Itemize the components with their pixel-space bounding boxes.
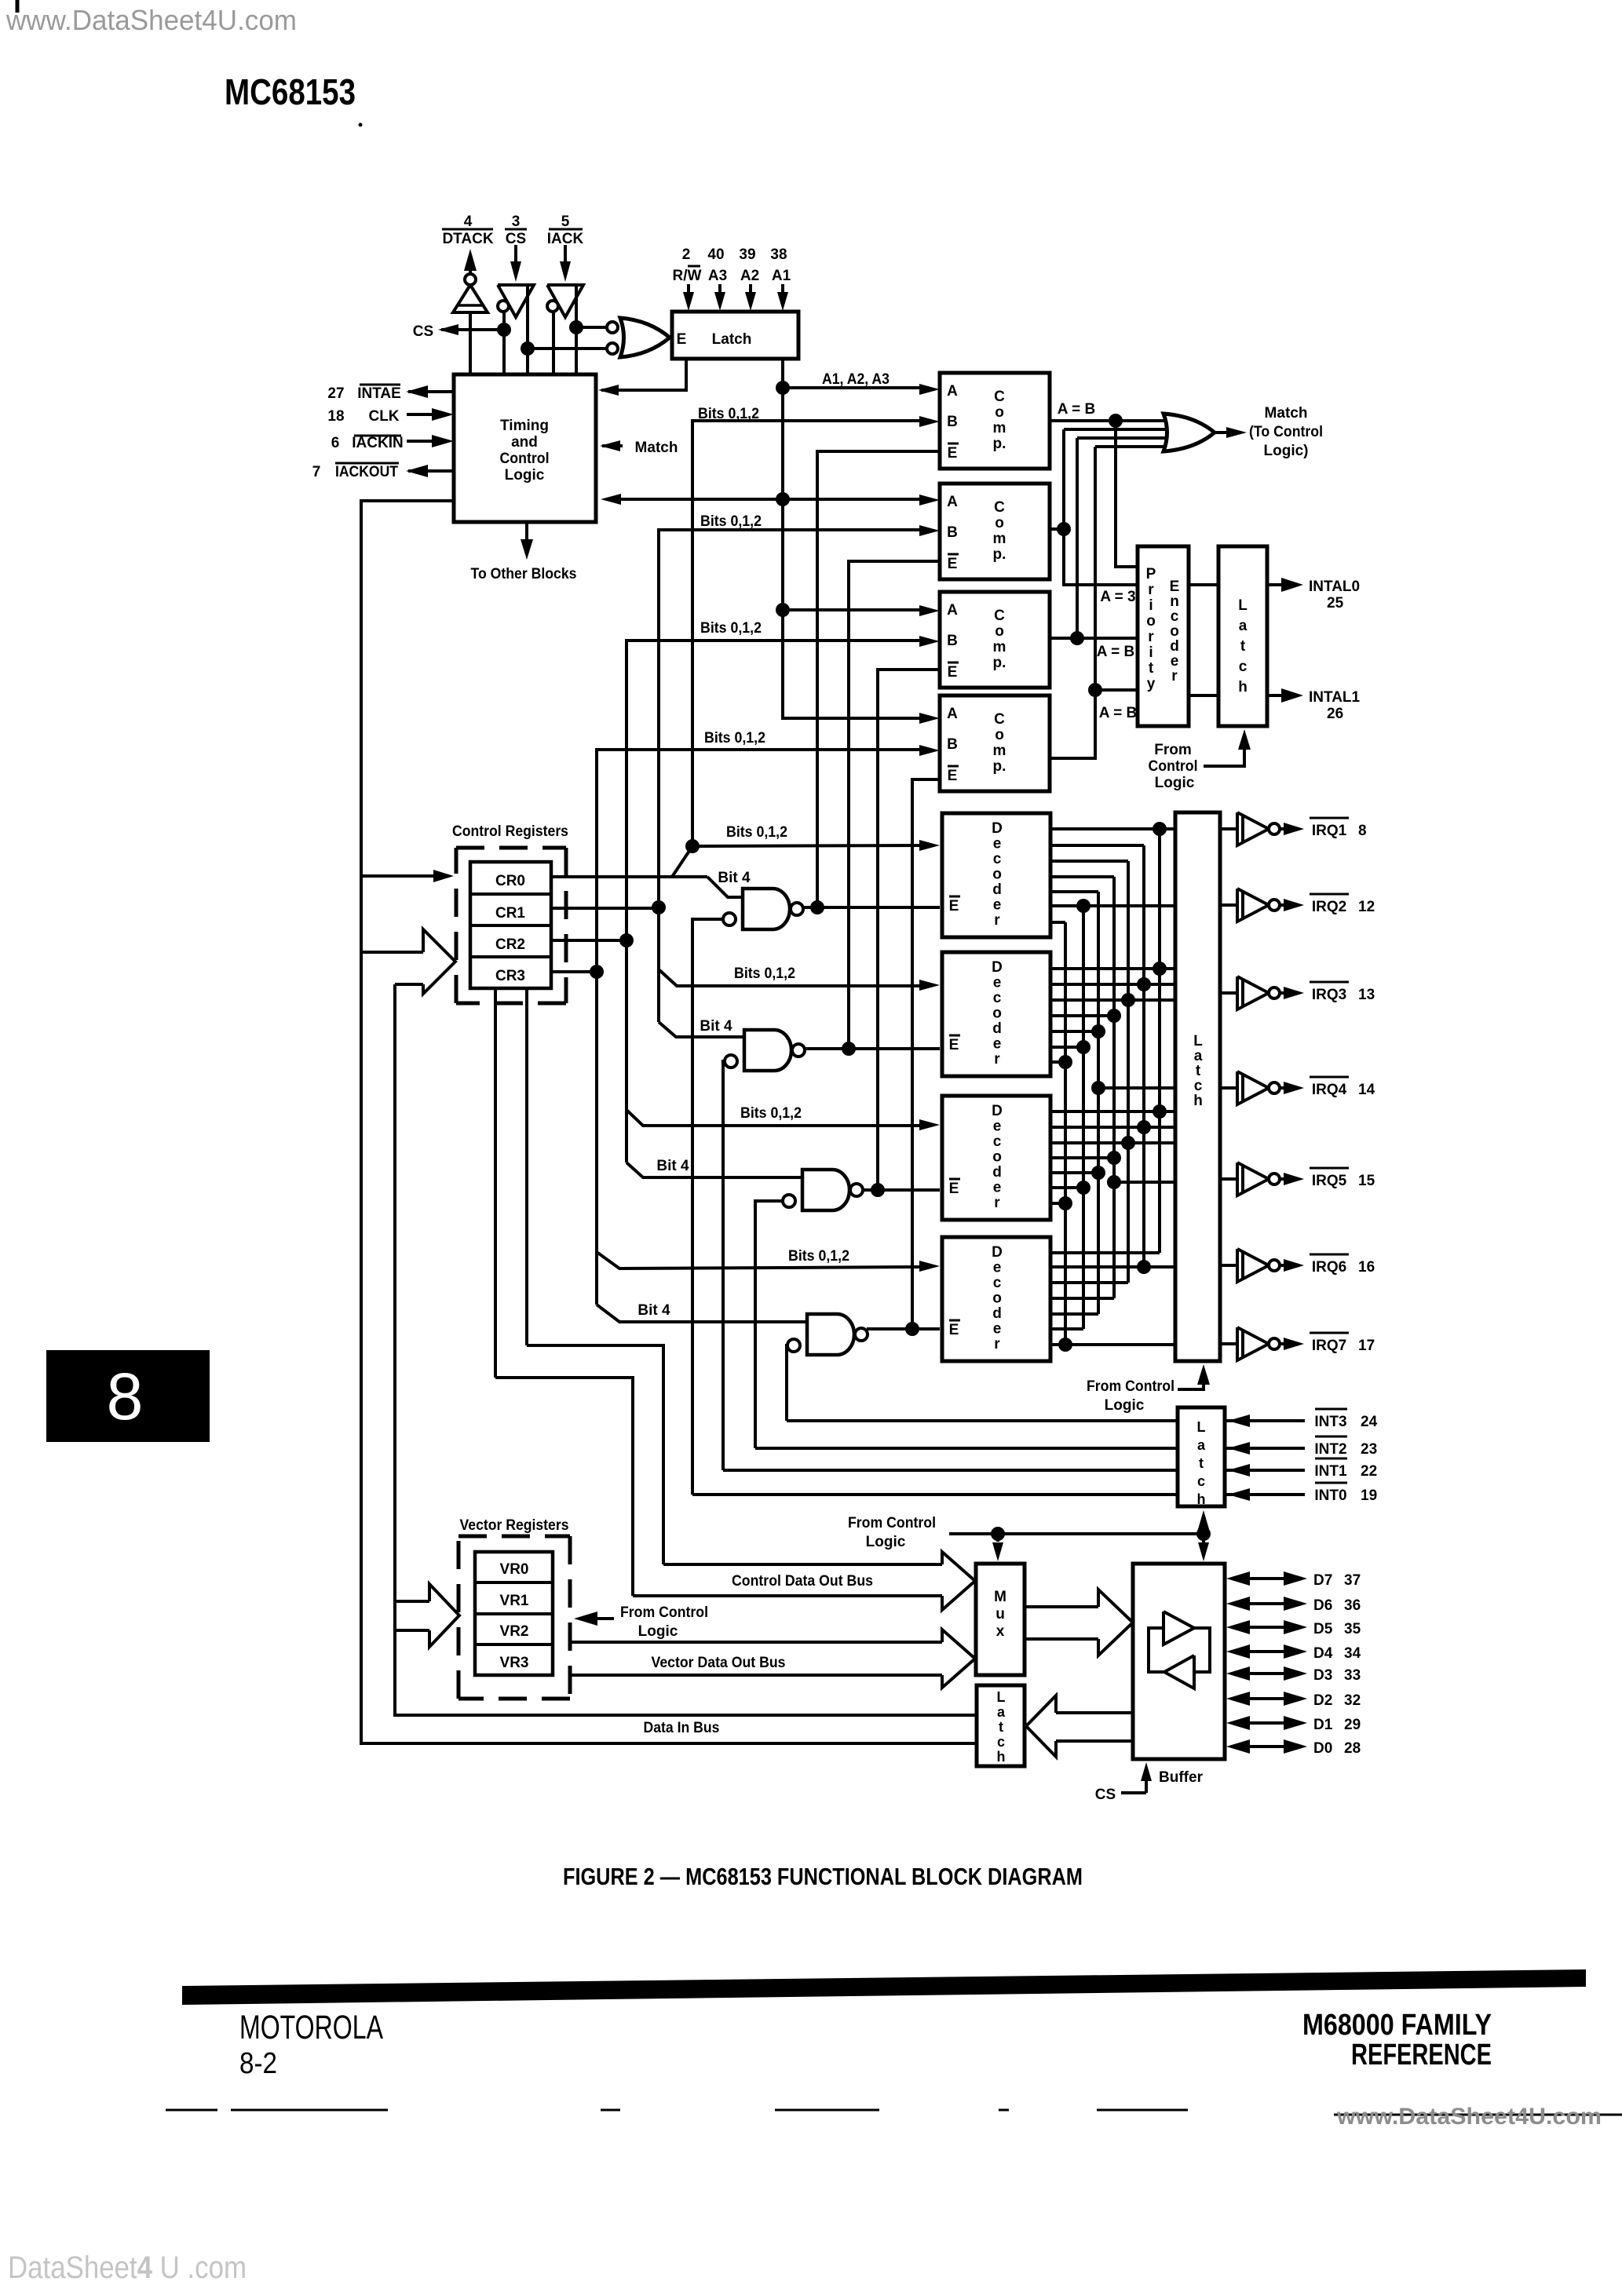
svg-text:Bit 4: Bit 4	[718, 870, 751, 886]
wire encoder to latch row INTAL1	[1189, 694, 1218, 697]
svg-text:32: 32	[1344, 1692, 1361, 1709]
svg-text:A3: A3	[708, 268, 727, 284]
buffer/inverter IRQ6	[1220, 1264, 1237, 1267]
decoder U7 box	[942, 952, 1050, 1076]
wire to OR-gate lower input	[528, 347, 606, 350]
wire IRQ5 row into latch	[1114, 1181, 1175, 1184]
svg-text:a: a	[1197, 1437, 1206, 1453]
svg-text:L: L	[997, 1689, 1006, 1705]
svg-text:D1: D1	[1313, 1717, 1333, 1733]
svg-text:CS: CS	[1095, 1787, 1116, 1803]
svg-text:L: L	[1193, 1033, 1203, 1049]
svg-text:a: a	[1194, 1048, 1203, 1064]
wire CR3 bits to comp4 B	[597, 750, 923, 972]
svg-text:Bits 0,1,2: Bits 0,1,2	[726, 824, 787, 841]
svg-text:A = B: A = B	[1058, 401, 1095, 418]
svg-text:IACK: IACK	[547, 231, 584, 247]
svg-text:17: 17	[1358, 1338, 1375, 1354]
buffer/inverter IRQ7	[1220, 1342, 1237, 1345]
svg-text:38: 38	[770, 246, 787, 263]
address latch box	[672, 312, 798, 359]
OR gate U1 (latch enable, 2 bubbled inputs)	[607, 322, 618, 333]
svg-text:B: B	[947, 736, 958, 753]
decoder U8 box	[942, 1096, 1050, 1220]
svg-text:INTAL0: INTAL0	[1309, 579, 1360, 595]
svg-text:3: 3	[512, 214, 521, 230]
NAND gate G3	[802, 1170, 849, 1210]
svg-text:L: L	[1238, 597, 1248, 614]
wire control data out routing	[527, 1345, 663, 1564]
svg-text:15: 15	[1358, 1173, 1375, 1189]
svg-text:n: n	[1170, 593, 1179, 610]
svg-text:r: r	[1148, 629, 1154, 645]
svg-text:c: c	[1197, 1473, 1205, 1489]
svg-text:From Control: From Control	[848, 1515, 936, 1531]
wire CR2 bus down / diagonal to decoder3 bits bus	[625, 940, 628, 1163]
pin INTAL1 26	[1267, 694, 1286, 697]
pin INT0 19	[1225, 1493, 1305, 1496]
svg-text:m: m	[993, 531, 1006, 547]
pin D7 37	[1226, 1571, 1250, 1586]
svg-text:Control Registers: Control Registers	[452, 823, 568, 840]
svg-text:CR3: CR3	[495, 968, 525, 984]
svg-text:r: r	[994, 1195, 1000, 1211]
pin IACK input arrow (down)	[564, 245, 567, 267]
section tab 8	[46, 1350, 210, 1442]
decoder 4 output rows	[1050, 1265, 1175, 1268]
svg-text:18: 18	[327, 408, 344, 425]
svg-text:22: 22	[1361, 1463, 1377, 1480]
svg-text:27: 27	[327, 385, 344, 402]
svg-text:c: c	[993, 1275, 1002, 1291]
node NAND4 output	[905, 1322, 919, 1336]
match output arrow	[1215, 431, 1226, 434]
svg-text:D0: D0	[1313, 1740, 1332, 1757]
svg-text:Vector Data Out Bus: Vector Data Out Bus	[652, 1655, 786, 1671]
decoder 1 output rows	[1050, 827, 1175, 830]
decoder 3 output rows	[1050, 1110, 1175, 1113]
wire to OR-gate upper input	[576, 326, 606, 329]
svg-text:Bits 0,1,2: Bits 0,1,2	[734, 965, 795, 982]
svg-text:A = B: A = B	[1099, 705, 1137, 721]
svg-text:Bits 0,1,2: Bits 0,1,2	[740, 1105, 802, 1122]
decoder 2 E label	[949, 1035, 960, 1037]
svg-text:r: r	[1148, 582, 1154, 598]
priority encoder box	[1138, 546, 1189, 726]
wire NAND2 output to decoder 2 E	[804, 1047, 940, 1050]
svg-text:2: 2	[682, 246, 691, 263]
wire A bus to comparator 1 A	[783, 386, 923, 389]
svg-text:E: E	[1170, 579, 1180, 595]
svg-text:8: 8	[107, 1360, 144, 1433]
wire INT1 latched output to NAND	[723, 1469, 1178, 1472]
svg-text:C: C	[994, 499, 1005, 516]
svg-text:A: A	[947, 602, 958, 619]
svg-text:t: t	[1196, 1063, 1201, 1079]
svg-text:r: r	[1171, 668, 1178, 684]
svg-text:e: e	[993, 1036, 1002, 1053]
svg-text:e: e	[993, 836, 1002, 852]
svg-text:E: E	[948, 664, 958, 681]
buffer internal bidirectional symbols	[1164, 1612, 1194, 1644]
wire OR output to latch E	[670, 336, 672, 339]
svg-text:Bits 0,1,2: Bits 0,1,2	[700, 513, 762, 530]
node NAND1 output	[810, 900, 824, 914]
wire CS triangle right side down to timing box	[526, 285, 529, 374]
wire NAND1 output to decoder 1 E	[802, 906, 940, 909]
svg-text:8: 8	[1358, 823, 1367, 839]
svg-text:c: c	[993, 1133, 1002, 1150]
svg-text:36: 36	[1344, 1597, 1361, 1614]
wire comp2 A=B	[1050, 527, 1064, 531]
svg-text:4: 4	[464, 214, 473, 230]
wire A bus to comparator 2 A / timing box	[783, 498, 923, 501]
svg-text:Buffer: Buffer	[1159, 1769, 1204, 1786]
wire CS bubble down to timing box	[502, 311, 506, 374]
svg-text:Bits 0,1,2: Bits 0,1,2	[700, 620, 762, 637]
vector registers inner box	[475, 1552, 553, 1675]
wire from control logic to mux and buffer	[949, 1532, 1204, 1535]
svg-text:d: d	[992, 1164, 1002, 1181]
vector registers dashed box	[458, 1535, 570, 1539]
node on CS right wire	[521, 341, 535, 356]
svg-text:E: E	[948, 556, 958, 572]
wire latch A1,A2,A3 bus down	[781, 359, 784, 720]
svg-text:IACKOUT: IACKOUT	[335, 464, 398, 480]
svg-text:IACKIN: IACKIN	[352, 435, 403, 451]
svg-text:c: c	[993, 990, 1002, 1006]
bus arrow into mux (control)	[942, 1552, 975, 1610]
bus arrow into buffer	[1098, 1590, 1133, 1655]
svg-text:Control Data Out Bus: Control Data Out Bus	[732, 1573, 873, 1590]
svg-text:t: t	[1199, 1455, 1204, 1471]
wire write data vertical	[395, 984, 977, 1715]
wire CR0 bits to comp1 B	[692, 421, 923, 846]
svg-text:o: o	[1146, 613, 1156, 630]
wire vector data out bus lines	[572, 1641, 942, 1644]
svg-text:D5: D5	[1313, 1621, 1333, 1637]
svg-text:d: d	[992, 882, 1002, 898]
svg-text:D: D	[992, 959, 1003, 976]
svg-text:i: i	[1149, 597, 1153, 614]
pin D3 33	[1226, 1666, 1250, 1681]
pin INTAL0 25	[1267, 583, 1286, 586]
wire CR1 out	[551, 907, 659, 910]
IRQ output latch box	[1175, 812, 1220, 1361]
svg-text:E: E	[949, 898, 959, 914]
DTACK output buffer (triangle up with bubble)	[465, 274, 476, 285]
svg-text:E: E	[677, 331, 687, 348]
svg-text:o: o	[1170, 623, 1179, 640]
write data bus open arrow into CR block	[361, 951, 423, 954]
pin DTACK output arrow (up)	[469, 259, 472, 274]
top-left scan tick	[16, 0, 20, 13]
comparator U2 box	[940, 484, 1050, 579]
wire from control logic into IRQ latch	[1178, 1382, 1204, 1389]
wire comp1 A=B to match OR and priority encoder	[1050, 419, 1178, 422]
svg-text:E: E	[949, 1181, 959, 1197]
wire CR3 bus down / diagonal to decoder4 bits bus	[595, 972, 598, 1305]
svg-text:35: 35	[1344, 1621, 1361, 1637]
svg-text:y: y	[1147, 676, 1156, 692]
CS input buffer (triangle down, bubble lower-left)	[498, 285, 534, 317]
buffer/inverter IRQ5	[1220, 1177, 1237, 1181]
svg-text:INT0: INT0	[1314, 1487, 1346, 1504]
wires mux to buffer	[1025, 1605, 1098, 1608]
svg-text:Logic: Logic	[1105, 1397, 1145, 1414]
decoder 1 E label	[949, 896, 960, 898]
svg-text:E: E	[949, 1037, 959, 1053]
svg-text:CS: CS	[413, 323, 433, 340]
svg-text:t: t	[999, 1719, 1003, 1735]
svg-text:From: From	[1154, 742, 1192, 758]
buffer/inverter IRQ3	[1220, 991, 1237, 995]
wire A bus to comparator 3 A	[783, 608, 923, 611]
wire to other blocks	[525, 522, 528, 542]
pin INT1 22	[1225, 1469, 1305, 1472]
svg-text:r: r	[994, 1336, 1000, 1352]
svg-text:E: E	[948, 445, 958, 462]
node CR2 junction	[619, 933, 634, 947]
svg-text:m: m	[993, 639, 1006, 655]
wire INT2 latched output to NAND	[755, 1447, 1178, 1450]
svg-text:CR1: CR1	[495, 905, 525, 922]
svg-text:D6: D6	[1313, 1597, 1332, 1614]
wire IRQ4 row into latch	[1098, 1086, 1175, 1090]
svg-text:P: P	[1146, 566, 1156, 582]
IACK input buffer (triangle down, bubble lower-left)	[547, 285, 583, 317]
svg-text:Latch: Latch	[712, 331, 752, 348]
svg-text:INT3: INT3	[1314, 1414, 1346, 1430]
svg-text:39: 39	[739, 246, 755, 263]
pin D2 32	[1226, 1692, 1250, 1706]
svg-text:and: and	[511, 434, 538, 451]
svg-text:i: i	[1149, 644, 1153, 661]
svg-text:INT2: INT2	[1314, 1441, 1346, 1458]
wire from control logic arrow into VR block	[585, 1617, 614, 1620]
svg-text:D4: D4	[1313, 1645, 1333, 1662]
wire bits bus to decoder 1	[692, 845, 923, 846]
write data bus open arrow into VR block	[395, 1600, 429, 1603]
svg-text:d: d	[1170, 638, 1179, 655]
svg-text:Bit 4: Bit 4	[700, 1018, 732, 1035]
wire control data out bus lines	[663, 1563, 942, 1566]
wire encoder to latch row INTAL0	[1189, 583, 1218, 586]
svg-text:o: o	[995, 623, 1004, 640]
footer bar	[182, 1969, 1586, 2005]
svg-text:CLK: CLK	[368, 408, 399, 425]
data-in latch box	[977, 1685, 1025, 1766]
svg-text:p.: p.	[993, 758, 1006, 775]
svg-text:MOTOROLA: MOTOROLA	[239, 2009, 383, 2046]
svg-text:r: r	[994, 912, 1000, 929]
svg-text:VR0: VR0	[500, 1561, 529, 1578]
data buffer box	[1133, 1564, 1225, 1759]
svg-text:40: 40	[707, 246, 724, 263]
timing and control logic box	[454, 374, 596, 522]
svg-text:To Other Blocks: To Other Blocks	[471, 566, 577, 582]
wire CR3 bit4 diagonal to NAND4	[597, 1305, 807, 1322]
svg-text:D: D	[992, 1103, 1003, 1119]
svg-text:A = 3: A = 3	[1100, 589, 1135, 605]
svg-text:Vector Registers: Vector Registers	[460, 1517, 569, 1534]
node CR3 junction	[590, 965, 604, 979]
wire from control logic vertical at INT latch / buffer	[1202, 1515, 1205, 1555]
svg-text:Logic: Logic	[866, 1534, 906, 1550]
svg-text:IRQ7: IRQ7	[1312, 1338, 1346, 1354]
node on IACK right wire	[569, 320, 583, 334]
svg-text:Bits 0,1,2: Bits 0,1,2	[788, 1248, 849, 1265]
decoder U9 box	[942, 1237, 1050, 1361]
pin IRQ5 15	[1310, 1167, 1349, 1170]
wire INT3 latched output to NAND	[787, 1419, 1178, 1422]
buffer/inverter IRQ4	[1220, 1086, 1237, 1090]
wire NAND3 out up to comp3 E	[878, 670, 940, 1190]
svg-text:INTAE: INTAE	[357, 385, 401, 402]
INTAL output latch box	[1218, 546, 1267, 726]
wire NAND4 output to decoder 4 E	[867, 1327, 940, 1331]
svg-text:c: c	[1171, 608, 1179, 625]
svg-text:12: 12	[1358, 899, 1375, 915]
svg-text:u: u	[995, 1606, 1005, 1623]
svg-text:c: c	[1194, 1078, 1203, 1094]
node A bus taps	[776, 381, 790, 395]
mux box	[976, 1564, 1025, 1675]
wire CR2 out	[551, 939, 627, 942]
decoder 4 E label	[949, 1320, 960, 1322]
svg-text:24: 24	[1361, 1414, 1378, 1430]
svg-text:t: t	[1240, 638, 1246, 655]
wire CR0 out	[551, 875, 707, 878]
wire CS out to left	[441, 328, 504, 331]
wire from control logic into INTAL latch	[1204, 747, 1244, 766]
decoder U6 box	[942, 813, 1050, 937]
pin IRQ3 13	[1310, 981, 1349, 984]
svg-text:e: e	[993, 1321, 1002, 1338]
svg-text:e: e	[993, 1119, 1002, 1135]
svg-text:IRQ4: IRQ4	[1312, 1082, 1347, 1098]
node NAND2 output	[842, 1042, 856, 1056]
wire NAND4 out up to comp4 E	[912, 779, 940, 1329]
svg-text:www.DataSheet4U.com: www.DataSheet4U.com	[5, 4, 297, 36]
svg-text:o: o	[995, 727, 1004, 743]
svg-text:26: 26	[1327, 706, 1343, 722]
wire CR1 bits to comp2 B	[659, 530, 923, 907]
svg-text:R/W: R/W	[673, 268, 702, 284]
wire comp4 A=B	[1050, 447, 1095, 758]
match input stub to timing box	[602, 444, 623, 447]
comparator U4 box	[940, 695, 1050, 791]
svg-text:Bit 4: Bit 4	[656, 1158, 689, 1174]
svg-text:C: C	[994, 711, 1005, 728]
svg-text:c: c	[993, 851, 1002, 867]
svg-text:D: D	[992, 820, 1003, 837]
input arrows into address latch	[687, 284, 690, 294]
bus arrow into data-in latch	[1026, 1696, 1056, 1757]
svg-text:DataSheet4 U .com: DataSheet4 U .com	[8, 2250, 247, 2285]
buffer/inverter IRQ1	[1220, 827, 1237, 830]
svg-text:E: E	[948, 768, 958, 784]
svg-text:IRQ1: IRQ1	[1312, 823, 1347, 839]
svg-text:B: B	[947, 524, 958, 541]
svg-text:MC68153: MC68153	[225, 71, 356, 112]
svg-text:o: o	[992, 1290, 1002, 1307]
svg-text:p.: p.	[993, 655, 1006, 671]
comparator U1 box	[940, 373, 1050, 469]
svg-text:Data In Bus: Data In Bus	[644, 1720, 720, 1736]
wire IACK triangle right side down to timing box	[575, 285, 578, 374]
svg-text:D7: D7	[1313, 1572, 1332, 1589]
NAND gate G2	[744, 1030, 791, 1071]
node CR0 bits bus junction	[685, 839, 700, 853]
svg-text:8-2: 8-2	[239, 2047, 277, 2080]
svg-text:t: t	[1149, 660, 1154, 677]
match OR gate U5	[1164, 414, 1215, 451]
svg-text:7: 7	[312, 464, 321, 480]
svg-text:IRQ3: IRQ3	[1312, 987, 1346, 1003]
control registers dashed box	[456, 846, 566, 850]
wire NAND3 inverted input from INT2	[755, 1201, 795, 1448]
wire CR1 bus down / diagonal to decoder2 bits bus	[657, 907, 660, 1022]
svg-text:E: E	[949, 1322, 959, 1338]
svg-text:VR2: VR2	[500, 1623, 529, 1640]
wire comp3 A=B	[1050, 637, 1077, 640]
svg-text:C: C	[994, 608, 1005, 624]
svg-text:x: x	[996, 1623, 1005, 1640]
svg-text:C: C	[994, 389, 1005, 405]
wire NAND1 inverted input from INT0	[692, 919, 735, 1495]
svg-text:L: L	[1197, 1419, 1206, 1435]
svg-text:Match: Match	[1265, 405, 1308, 422]
svg-text:r: r	[994, 1051, 1000, 1068]
wire NAND2 out up to comp2 E	[849, 561, 940, 1049]
node NAND3 output	[871, 1183, 885, 1197]
INT input latch box	[1178, 1407, 1225, 1506]
svg-text:e: e	[993, 1180, 1002, 1196]
svg-text:Logic): Logic)	[1264, 443, 1309, 459]
svg-text:25: 25	[1327, 595, 1344, 611]
svg-text:a: a	[1239, 618, 1248, 634]
svg-text:VR3: VR3	[500, 1655, 529, 1671]
pin INT2 23	[1225, 1447, 1305, 1450]
wire A bus to comparator 4 A	[783, 718, 923, 720]
wire data in bottom line	[361, 952, 977, 1743]
svg-text:Bit 4: Bit 4	[637, 1302, 670, 1319]
wire CR2 bit4 diagonal to NAND3	[627, 1163, 802, 1177]
svg-text:13: 13	[1358, 987, 1375, 1003]
svg-text:A1: A1	[772, 268, 791, 284]
comparator U3 box	[940, 592, 1050, 688]
wire CR2 bits to comp3 B	[627, 641, 923, 940]
svg-text:28: 28	[1344, 1740, 1361, 1757]
wire NAND2 inverted input from INT1	[723, 1061, 736, 1470]
svg-text:Match: Match	[635, 440, 678, 456]
wire latch E-out down-left to timing box	[601, 359, 686, 390]
svg-text:c: c	[997, 1734, 1005, 1750]
node CS tap	[497, 323, 511, 337]
svg-text:Control: Control	[1149, 758, 1198, 775]
wire NAND4 inverted input from INT3	[787, 1345, 799, 1421]
svg-text:D: D	[992, 1244, 1003, 1261]
wire INT0 latched output to NAND	[692, 1493, 1178, 1496]
svg-text:A: A	[947, 383, 958, 400]
svg-text:o: o	[995, 515, 1004, 531]
wire CR1 bit4 diagonal to NAND2	[659, 1022, 744, 1037]
svg-text:e: e	[993, 975, 1002, 991]
wire CR0 diagonal up to bits bus	[672, 846, 692, 877]
wire DTACK buffer to timing box	[469, 312, 472, 374]
svg-text:16: 16	[1358, 1259, 1375, 1276]
